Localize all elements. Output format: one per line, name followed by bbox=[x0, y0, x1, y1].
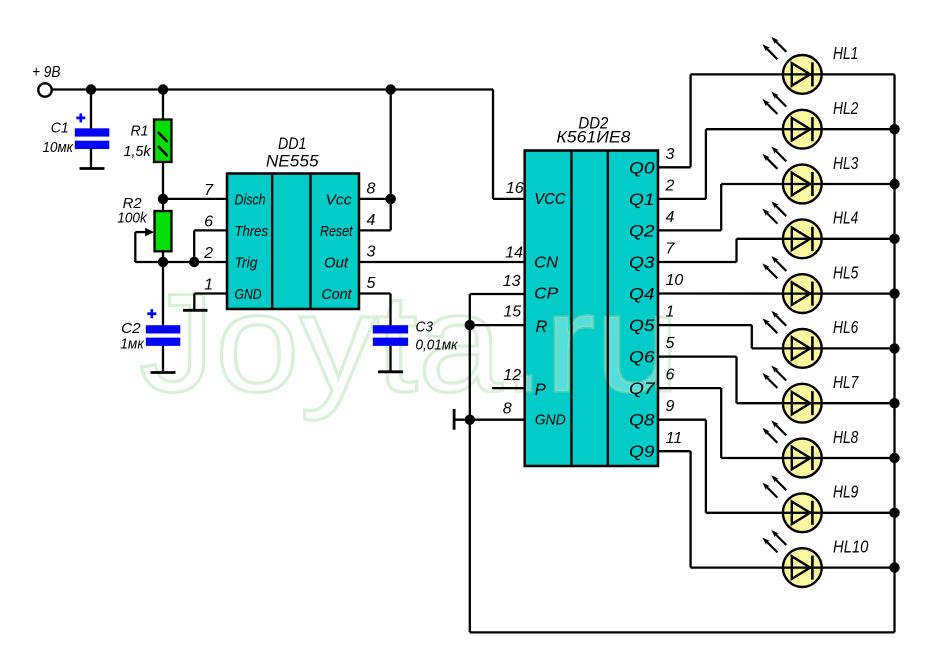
LED HL7 bbox=[762, 366, 821, 423]
junction node thres bbox=[189, 257, 199, 267]
svg-text:HL2: HL2 bbox=[833, 98, 859, 118]
wire rail branch vertical bbox=[390, 90, 392, 231]
svg-text:Disch: Disch bbox=[235, 191, 266, 208]
junction node Vcc/Reset bbox=[386, 194, 396, 204]
LED HL4 bbox=[762, 201, 821, 258]
R1 rating marks bbox=[159, 133, 167, 156]
power terminal +9V bbox=[38, 83, 51, 96]
svg-text:C1: C1 bbox=[51, 120, 69, 137]
ground bar C2 bbox=[151, 371, 176, 374]
wire R1 to node bbox=[162, 162, 164, 199]
svg-text:Thres: Thres bbox=[235, 223, 269, 240]
wire rail corner to DD2 pin 16 bbox=[492, 90, 494, 199]
stub DD2 pin 12 bbox=[492, 387, 525, 389]
LED HL9 bbox=[762, 475, 821, 532]
svg-text:Joyta.ru: Joyta.ru bbox=[139, 264, 680, 421]
counter DD2 K561IE8 outline bbox=[525, 151, 658, 467]
junction node trig bbox=[158, 257, 168, 267]
timer DD1 NE555 outline bbox=[227, 174, 359, 310]
resistor R2 (trimmer) bbox=[155, 211, 172, 251]
svg-text:VCC: VCC bbox=[534, 191, 566, 208]
svg-text:6: 6 bbox=[666, 367, 675, 384]
wire DD1 pin 8 to rail branch bbox=[359, 198, 391, 200]
wire rail to C1 bbox=[90, 90, 92, 129]
wire bottom return rail bbox=[470, 631, 895, 633]
svg-text:1мк: 1мк bbox=[120, 336, 144, 353]
wire DD1 pin 1 to ground bbox=[194, 292, 227, 294]
svg-text:1,5k: 1,5k bbox=[124, 143, 152, 160]
svg-text:3: 3 bbox=[666, 146, 675, 163]
wire DD2 Q9 to HL10 bbox=[658, 450, 691, 452]
svg-text:C2: C2 bbox=[121, 320, 141, 337]
svg-text:HL5: HL5 bbox=[833, 262, 859, 282]
LED HL1 bbox=[762, 37, 821, 94]
wire trig node to DD1 pin 2 bbox=[163, 261, 227, 263]
svg-text:Cont: Cont bbox=[322, 286, 353, 303]
wire DD2 Q1 to HL2 bbox=[658, 198, 706, 200]
svg-text:2: 2 bbox=[665, 177, 675, 194]
svg-text:Reset: Reset bbox=[320, 223, 353, 240]
ground bar DD1 bbox=[183, 309, 208, 312]
wire DD1 Out to DD2 CN bbox=[359, 261, 525, 263]
svg-text:5: 5 bbox=[367, 275, 376, 292]
LED HL3 bbox=[762, 146, 821, 203]
svg-text:HL3: HL3 bbox=[833, 153, 859, 173]
svg-text:10мк: 10мк bbox=[43, 139, 74, 156]
svg-text:C3: C3 bbox=[416, 319, 434, 336]
svg-text:Q9: Q9 bbox=[629, 443, 655, 461]
svg-text:Q1: Q1 bbox=[629, 191, 655, 209]
svg-text:Out: Out bbox=[324, 255, 349, 272]
svg-text:Q3: Q3 bbox=[629, 254, 655, 272]
svg-text:Q0: Q0 bbox=[629, 159, 655, 177]
svg-text:CP: CP bbox=[534, 286, 558, 303]
wire R2 wiper to bottom node bbox=[134, 232, 136, 262]
wire DD2 Q0 to HL1 bbox=[658, 166, 691, 168]
svg-text:R: R bbox=[536, 318, 548, 336]
svg-text:+ 9В: + 9В bbox=[32, 64, 61, 81]
svg-text:9: 9 bbox=[666, 398, 675, 415]
wire DD2 Q7 to HL8 bbox=[658, 387, 721, 389]
svg-text:HL8: HL8 bbox=[833, 427, 859, 447]
wire bus vertical bbox=[893, 74, 895, 632]
svg-text:7: 7 bbox=[204, 182, 214, 199]
wire HL2 to bus bbox=[822, 128, 895, 130]
wire HL7 to bus bbox=[822, 402, 895, 404]
svg-text:13: 13 bbox=[503, 273, 521, 290]
wire C3 to ground bbox=[389, 346, 391, 372]
LED HL5 bbox=[762, 256, 821, 313]
wire DD2 Q2 to HL3 bbox=[658, 229, 721, 231]
svg-text:HL6: HL6 bbox=[833, 317, 859, 337]
wire DD1 pin 4 bbox=[359, 229, 391, 231]
svg-text:Vcc: Vcc bbox=[326, 191, 353, 208]
wire C2 to ground bbox=[162, 346, 164, 373]
wire node to DD1 pin 7 bbox=[163, 198, 227, 200]
wire HL3 to bus bbox=[822, 183, 895, 185]
wire node to R2 bbox=[162, 199, 164, 211]
svg-text:Q2: Q2 bbox=[629, 222, 655, 240]
capacitor C2 bbox=[146, 325, 181, 346]
wire HL6 to bus bbox=[822, 347, 895, 349]
svg-text:3: 3 bbox=[367, 244, 376, 261]
wire DD2 pin 15 bbox=[470, 324, 525, 326]
wire HL8 to bus bbox=[822, 457, 895, 459]
svg-text:1: 1 bbox=[666, 304, 675, 321]
LED HL6 bbox=[762, 311, 821, 368]
svg-text:HL7: HL7 bbox=[833, 372, 859, 392]
svg-text:Q7: Q7 bbox=[629, 380, 655, 398]
svg-text:NE555: NE555 bbox=[266, 152, 319, 171]
DD2 output labels Q0-Q9 bbox=[629, 159, 655, 461]
svg-text:8: 8 bbox=[367, 180, 376, 197]
LED HL2 bbox=[762, 92, 821, 149]
svg-text:100k: 100k bbox=[117, 210, 148, 227]
DD2 pin labels left bbox=[534, 191, 566, 428]
wire HL9 to bus bbox=[822, 512, 895, 514]
svg-text:Trig: Trig bbox=[235, 255, 259, 272]
junction node GND bbox=[465, 415, 475, 425]
wire C1 to ground bbox=[90, 149, 92, 169]
svg-text:DD1: DD1 bbox=[278, 134, 307, 153]
svg-text:5: 5 bbox=[666, 335, 675, 352]
svg-text:14: 14 bbox=[505, 245, 523, 262]
junction node R1/R2/pin7 bbox=[158, 194, 168, 204]
LED HL10 bbox=[762, 530, 821, 587]
svg-text:12: 12 bbox=[503, 367, 521, 384]
DD2 output pin numbers bbox=[665, 146, 684, 447]
bus junction nodes bbox=[889, 124, 899, 573]
svg-text:HL10: HL10 bbox=[833, 536, 869, 556]
wire DD2 pin 13 branch bbox=[470, 293, 525, 295]
wire HL4 to bus bbox=[822, 238, 895, 240]
R2 wiper arrow bbox=[135, 231, 147, 233]
wire DD2 Q8 to HL9 bbox=[658, 419, 706, 421]
svg-text:HL4: HL4 bbox=[833, 208, 859, 228]
svg-text:Q4: Q4 bbox=[629, 286, 655, 304]
wire DD2 Q5 to HL6 bbox=[658, 324, 752, 326]
wire DD2 Q3 to HL4 bbox=[658, 261, 737, 263]
wire HL10 to bus bbox=[822, 566, 895, 568]
wire trig node to C2 bbox=[162, 262, 164, 325]
wire DD2 Q6 to HL7 bbox=[658, 355, 737, 357]
chip DD1 body fill bbox=[227, 174, 359, 310]
wire node to DD1 pin 6 bbox=[193, 230, 195, 262]
wire DD2 pin 8 bbox=[454, 419, 525, 421]
wire R2 to trig node bbox=[162, 251, 164, 262]
svg-text:16: 16 bbox=[506, 180, 524, 197]
wire top supply rail bbox=[52, 88, 493, 90]
capacitor C3 bbox=[373, 325, 408, 346]
capacitor C1 bbox=[75, 128, 110, 149]
svg-text:CN: CN bbox=[534, 255, 558, 272]
wire cathode bus top bbox=[822, 73, 895, 75]
svg-text:6: 6 bbox=[204, 213, 213, 230]
svg-text:7: 7 bbox=[666, 241, 676, 258]
terminator bar GND bbox=[453, 409, 456, 430]
wire HL5 to bus bbox=[822, 292, 895, 294]
ground bar C1 bbox=[80, 167, 105, 170]
junction node R pin bbox=[465, 320, 475, 330]
svg-text:4: 4 bbox=[367, 212, 376, 229]
svg-text:15: 15 bbox=[503, 304, 521, 321]
ground bar C3 bbox=[378, 370, 403, 373]
svg-text:8: 8 bbox=[503, 401, 512, 418]
wire DD2 Q4 to HL5 bbox=[658, 292, 783, 294]
LED HL8 bbox=[762, 420, 821, 477]
junction node at R1 bbox=[158, 84, 168, 94]
svg-text:2: 2 bbox=[203, 245, 213, 262]
svg-text:К561ИЕ8: К561ИЕ8 bbox=[556, 128, 631, 147]
svg-text:10: 10 bbox=[666, 272, 684, 289]
junction node at C1 bbox=[86, 84, 96, 94]
svg-text:1: 1 bbox=[204, 277, 213, 294]
svg-text:HL1: HL1 bbox=[833, 43, 858, 63]
svg-text:R1: R1 bbox=[131, 123, 149, 140]
svg-text:Q8: Q8 bbox=[629, 412, 655, 430]
chip DD2 body fill bbox=[525, 151, 658, 467]
svg-text:0,01мк: 0,01мк bbox=[416, 337, 459, 354]
wire DD1 pin 5 to C3 bbox=[359, 292, 391, 294]
C1 polarity plus bbox=[76, 113, 85, 122]
svg-text:HL9: HL9 bbox=[833, 482, 859, 502]
svg-text:Q6: Q6 bbox=[629, 349, 655, 367]
wire rail to R1 bbox=[162, 90, 164, 120]
C2 polarity plus bbox=[147, 309, 156, 318]
resistor R1 bbox=[154, 120, 172, 163]
svg-text:GND: GND bbox=[535, 413, 566, 429]
DD1 pin labels right bbox=[320, 191, 353, 303]
junction node at DD1 Vcc branch bbox=[386, 84, 396, 94]
svg-text:P: P bbox=[535, 381, 546, 399]
svg-text:GND: GND bbox=[235, 286, 262, 303]
svg-text:4: 4 bbox=[666, 209, 675, 226]
svg-text:11: 11 bbox=[666, 430, 683, 447]
svg-text:Q5: Q5 bbox=[629, 317, 655, 335]
DD1 pin labels left bbox=[235, 191, 269, 303]
